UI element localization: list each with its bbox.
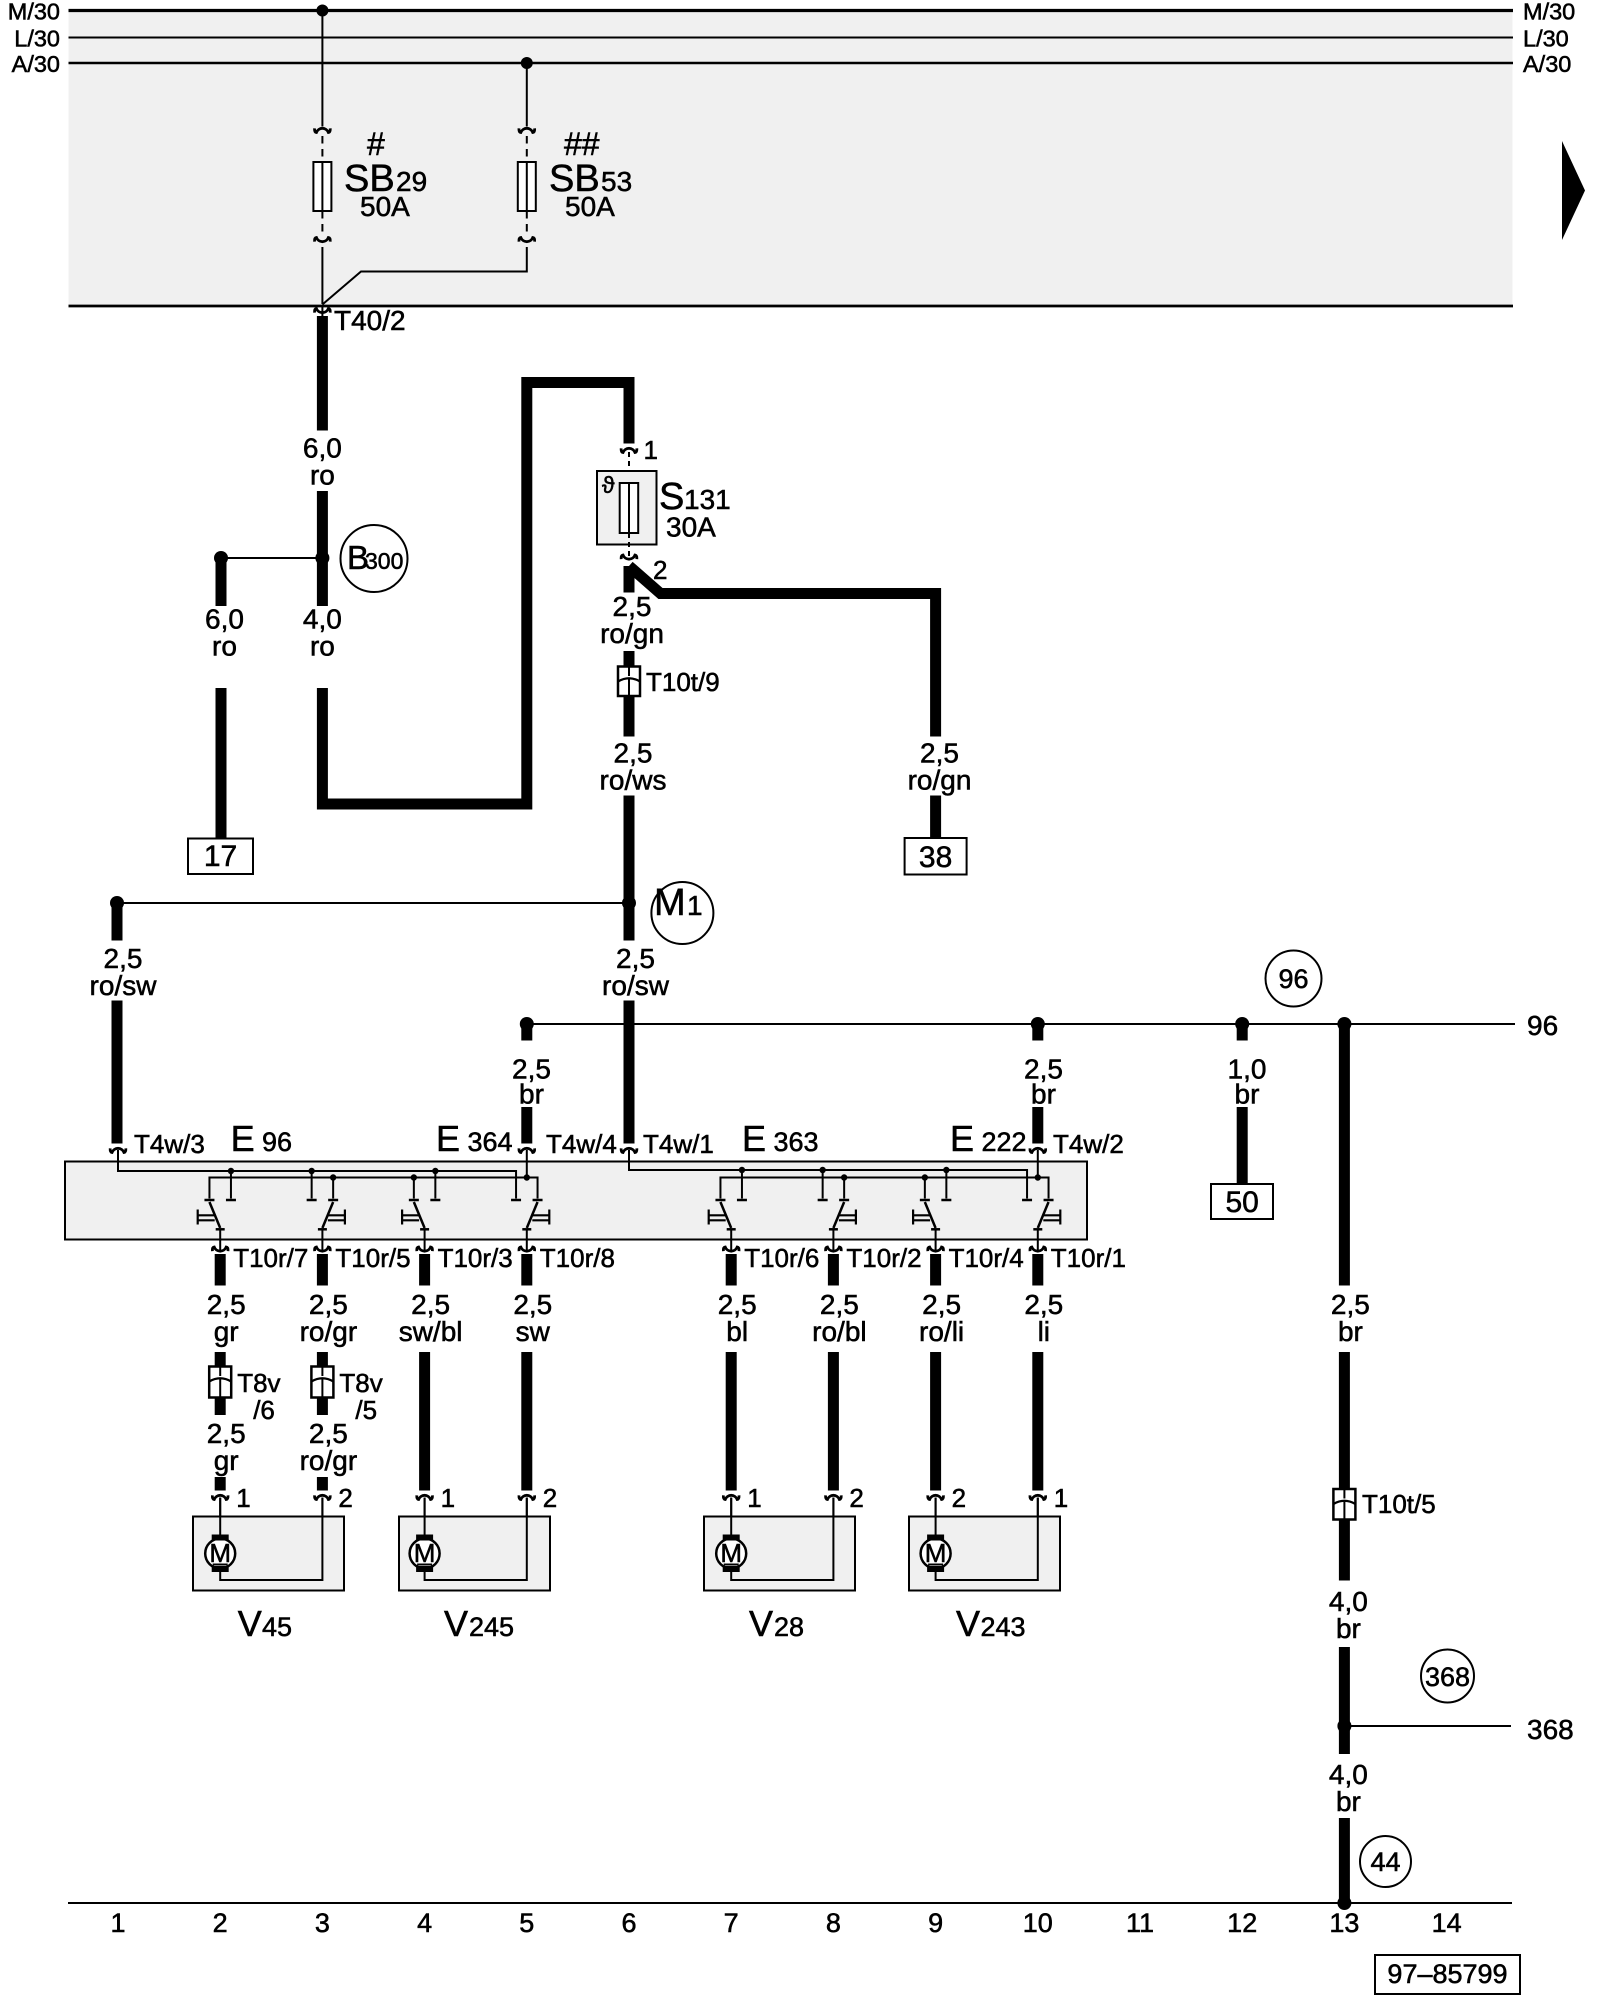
- svg-text:T4w/2: T4w/2: [1053, 1129, 1124, 1159]
- svg-text:li: li: [1038, 1316, 1050, 1347]
- svg-text:2: 2: [653, 555, 667, 585]
- svg-text:L/30: L/30: [1523, 26, 1569, 52]
- svg-text:br: br: [1336, 1786, 1361, 1817]
- svg-text:131: 131: [684, 484, 731, 515]
- svg-text:96: 96: [262, 1127, 292, 1157]
- svg-text:28: 28: [774, 1612, 804, 1642]
- svg-text:T10r/7: T10r/7: [233, 1243, 308, 1273]
- svg-text:45: 45: [262, 1612, 292, 1642]
- svg-text:2: 2: [338, 1483, 352, 1513]
- svg-text:A/30: A/30: [1523, 51, 1571, 77]
- svg-text:2: 2: [213, 1908, 228, 1938]
- svg-text:1: 1: [1054, 1483, 1068, 1513]
- svg-text:E: E: [742, 1118, 766, 1159]
- svg-text:/5: /5: [355, 1395, 377, 1425]
- svg-text:222: 222: [982, 1127, 1027, 1157]
- svg-text:ro/ws: ro/ws: [600, 765, 667, 796]
- svg-text:1: 1: [441, 1483, 455, 1513]
- svg-text:M/30: M/30: [1523, 0, 1575, 25]
- svg-text:L/30: L/30: [14, 26, 60, 52]
- svg-text:ro: ro: [310, 460, 335, 491]
- svg-text:9: 9: [928, 1908, 943, 1938]
- svg-text:50: 50: [1226, 1186, 1259, 1219]
- svg-text:br: br: [519, 1079, 544, 1110]
- svg-text:T10r/1: T10r/1: [1051, 1243, 1126, 1273]
- svg-text:##: ##: [564, 126, 600, 162]
- svg-text:50A: 50A: [565, 191, 615, 222]
- svg-text:sw: sw: [516, 1316, 551, 1347]
- svg-text:245: 245: [469, 1612, 514, 1642]
- svg-text:4: 4: [417, 1908, 432, 1938]
- svg-text:13: 13: [1329, 1908, 1359, 1938]
- svg-text:50A: 50A: [360, 191, 410, 222]
- svg-text:243: 243: [981, 1612, 1026, 1642]
- svg-text:1: 1: [747, 1483, 761, 1513]
- svg-text:ro/sw: ro/sw: [602, 970, 670, 1001]
- svg-text:T10t/5: T10t/5: [1362, 1489, 1436, 1519]
- svg-text:E: E: [436, 1118, 460, 1159]
- svg-text:ϑ: ϑ: [602, 472, 615, 498]
- svg-text:ro/gr: ro/gr: [300, 1445, 358, 1476]
- svg-text:3: 3: [315, 1908, 330, 1938]
- svg-text:br: br: [1235, 1079, 1260, 1110]
- svg-text:V: V: [749, 1603, 773, 1644]
- svg-text:2: 2: [952, 1483, 966, 1513]
- svg-text:368: 368: [1527, 1714, 1574, 1745]
- svg-text:T10r/3: T10r/3: [438, 1243, 513, 1273]
- svg-text:1: 1: [236, 1483, 250, 1513]
- svg-text:368: 368: [1425, 1662, 1470, 1692]
- svg-text:br: br: [1031, 1079, 1056, 1110]
- svg-text:363: 363: [774, 1127, 819, 1157]
- svg-text:5: 5: [519, 1908, 534, 1938]
- svg-text:bl: bl: [726, 1316, 748, 1347]
- svg-text:E: E: [231, 1118, 255, 1159]
- svg-text:sw/bl: sw/bl: [399, 1316, 463, 1347]
- svg-text:6: 6: [621, 1908, 636, 1938]
- svg-text:T10r/4: T10r/4: [949, 1243, 1024, 1273]
- svg-text:T10r/8: T10r/8: [540, 1243, 615, 1273]
- svg-text:30A: 30A: [666, 512, 716, 543]
- svg-text:ro/bl: ro/bl: [812, 1316, 866, 1347]
- svg-text:T40/2: T40/2: [334, 305, 406, 336]
- svg-text:T8v: T8v: [339, 1368, 382, 1398]
- svg-text:T4w/1: T4w/1: [643, 1129, 714, 1159]
- svg-text:44: 44: [1370, 1847, 1400, 1877]
- svg-text:M/30: M/30: [8, 0, 60, 25]
- svg-text:gr: gr: [214, 1445, 239, 1476]
- svg-text:1: 1: [110, 1908, 125, 1938]
- svg-text:M: M: [654, 882, 686, 924]
- svg-text:7: 7: [724, 1908, 739, 1938]
- svg-text:2: 2: [543, 1483, 557, 1513]
- svg-text:A/30: A/30: [12, 51, 60, 77]
- svg-text:17: 17: [204, 840, 237, 873]
- svg-text:96: 96: [1278, 964, 1308, 994]
- svg-text:T10r/5: T10r/5: [335, 1243, 410, 1273]
- svg-text:10: 10: [1023, 1908, 1053, 1938]
- svg-text:T10t/9: T10t/9: [646, 667, 720, 697]
- svg-text:12: 12: [1227, 1908, 1257, 1938]
- svg-text:br: br: [1336, 1613, 1361, 1644]
- svg-text:ro: ro: [310, 631, 335, 662]
- svg-text:97–85799: 97–85799: [1387, 1959, 1507, 1989]
- svg-text:ro/li: ro/li: [919, 1316, 964, 1347]
- svg-text:E: E: [950, 1118, 974, 1159]
- svg-text:T4w/3: T4w/3: [134, 1129, 205, 1159]
- svg-text:/6: /6: [253, 1395, 275, 1425]
- svg-text:T4w/4: T4w/4: [546, 1129, 617, 1159]
- svg-text:ro/gn: ro/gn: [600, 618, 664, 649]
- svg-text:T10r/2: T10r/2: [846, 1243, 921, 1273]
- svg-text:V: V: [444, 1603, 468, 1644]
- svg-text:ro: ro: [212, 631, 237, 662]
- svg-text:300: 300: [365, 548, 403, 574]
- svg-text:ro/sw: ro/sw: [90, 970, 158, 1001]
- svg-text:2: 2: [849, 1483, 863, 1513]
- svg-text:T10r/6: T10r/6: [744, 1243, 819, 1273]
- svg-text:96: 96: [1527, 1010, 1558, 1041]
- svg-text:1: 1: [687, 890, 703, 921]
- svg-text:ro/gr: ro/gr: [300, 1316, 358, 1347]
- svg-text:8: 8: [826, 1908, 841, 1938]
- svg-text:14: 14: [1432, 1908, 1462, 1938]
- svg-text:364: 364: [468, 1127, 513, 1157]
- svg-text:T8v: T8v: [237, 1368, 280, 1398]
- svg-text:1: 1: [644, 435, 658, 465]
- svg-text:br: br: [1338, 1316, 1363, 1347]
- svg-text:V: V: [956, 1603, 980, 1644]
- svg-text:38: 38: [919, 841, 952, 874]
- svg-text:ro/gn: ro/gn: [908, 765, 972, 796]
- svg-text:V: V: [238, 1603, 262, 1644]
- svg-text:11: 11: [1126, 1908, 1154, 1938]
- svg-text:gr: gr: [214, 1316, 239, 1347]
- svg-text:#: #: [367, 126, 385, 162]
